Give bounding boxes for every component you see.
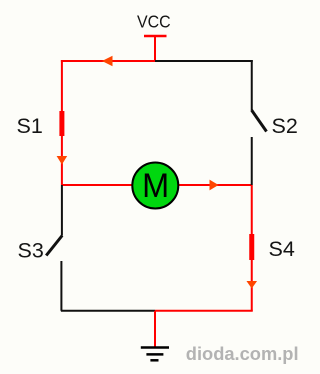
svg-text:VCC: VCC [137, 12, 171, 32]
svg-text:S1: S1 [17, 114, 43, 138]
svg-text:S4: S4 [269, 237, 295, 261]
svg-text:S2: S2 [272, 114, 298, 138]
svg-text:M: M [142, 167, 169, 205]
svg-text:dioda.com.pl: dioda.com.pl [186, 343, 299, 364]
svg-text:S3: S3 [18, 239, 44, 263]
